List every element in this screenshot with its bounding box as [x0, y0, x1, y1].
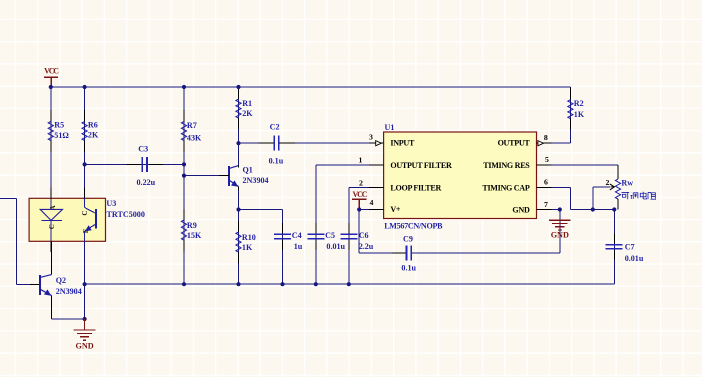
svg-text:R6: R6: [88, 121, 98, 130]
svg-text:C5: C5: [325, 231, 335, 240]
svg-text:C4: C4: [292, 231, 302, 240]
svg-text:43K: 43K: [187, 133, 202, 142]
svg-text:8: 8: [544, 133, 548, 142]
svg-text:A: A: [49, 205, 57, 210]
svg-text:LM567CN/NOPB: LM567CN/NOPB: [384, 222, 443, 231]
svg-text:0.01u: 0.01u: [326, 242, 345, 251]
svg-text:Rw: Rw: [621, 179, 633, 188]
svg-text:0.22u: 0.22u: [137, 178, 156, 187]
svg-text:1K: 1K: [574, 110, 585, 119]
svg-text:C7: C7: [625, 243, 635, 252]
svg-text:GND: GND: [551, 231, 569, 240]
svg-text:VCC: VCC: [353, 190, 368, 199]
svg-text:INPUT: INPUT: [390, 139, 415, 148]
svg-text:TIMING RES: TIMING RES: [483, 161, 530, 170]
svg-text:C9: C9: [403, 234, 413, 243]
svg-text:R7: R7: [187, 121, 197, 130]
svg-text:R10: R10: [242, 233, 256, 242]
svg-text:VCC: VCC: [44, 66, 59, 75]
svg-text:C: C: [81, 211, 89, 216]
svg-text:7: 7: [544, 200, 548, 209]
svg-text:0.1u: 0.1u: [401, 263, 416, 272]
svg-text:2N3904: 2N3904: [243, 176, 269, 185]
svg-text:1u: 1u: [294, 242, 303, 251]
svg-text:6: 6: [544, 178, 548, 187]
svg-text:1: 1: [358, 156, 362, 165]
svg-text:2: 2: [359, 178, 363, 187]
svg-text:5: 5: [545, 155, 549, 164]
svg-text:2K: 2K: [242, 109, 253, 118]
svg-text:U1: U1: [385, 123, 395, 132]
svg-text:3: 3: [369, 133, 373, 142]
svg-text:C3: C3: [138, 145, 148, 154]
svg-text:E: E: [82, 228, 90, 233]
svg-text:0.1u: 0.1u: [269, 157, 284, 166]
svg-text:OUTPUT: OUTPUT: [498, 139, 531, 148]
svg-text:Q2: Q2: [56, 276, 66, 285]
svg-text:GND: GND: [75, 342, 93, 351]
svg-text:2K: 2K: [88, 130, 99, 139]
svg-text:R2: R2: [574, 99, 584, 108]
svg-text:15K: 15K: [187, 231, 202, 240]
svg-text:OUTPUT FILTER: OUTPUT FILTER: [390, 161, 452, 170]
svg-text:C: C: [48, 224, 56, 229]
svg-text:R5: R5: [54, 121, 64, 130]
svg-text:TRTC5000: TRTC5000: [107, 210, 145, 219]
svg-text:C2: C2: [270, 123, 280, 132]
svg-text:GND: GND: [512, 206, 530, 215]
svg-text:4: 4: [370, 198, 374, 207]
svg-text:R1: R1: [242, 99, 252, 108]
svg-text:TIMING CAP: TIMING CAP: [482, 183, 529, 192]
svg-text:2.2u: 2.2u: [359, 242, 374, 251]
svg-text:V+: V+: [390, 205, 401, 214]
svg-text:51Ω: 51Ω: [54, 131, 69, 140]
svg-text:1K: 1K: [242, 243, 253, 252]
svg-text:2: 2: [605, 178, 609, 187]
svg-text:Q1: Q1: [243, 165, 253, 174]
svg-text:0.01u: 0.01u: [625, 254, 644, 263]
svg-text:R9: R9: [187, 221, 197, 230]
svg-text:C6: C6: [359, 231, 369, 240]
svg-text:LOOP FILTER: LOOP FILTER: [390, 183, 441, 192]
svg-text:U3: U3: [106, 199, 116, 208]
svg-text:2N3904: 2N3904: [56, 287, 82, 296]
